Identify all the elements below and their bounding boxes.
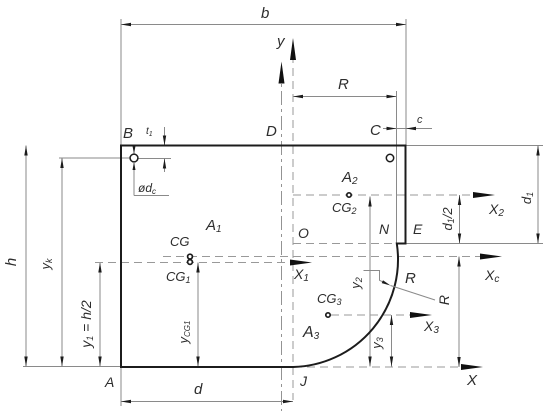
dimension h left — [25, 146, 27, 367]
wire extension left edge down for d — [120, 367, 122, 406]
svg-text:d: d — [194, 381, 203, 398]
svg-text:R: R — [338, 76, 349, 93]
axis X dashed line — [294, 366, 479, 368]
dimension c — [383, 128, 432, 130]
hole at B (o dc) — [130, 154, 138, 162]
shape outline (section profile) — [121, 146, 406, 368]
wire extension hole-B t1 level — [138, 158, 171, 160]
node CG1 — [188, 260, 193, 265]
wire extension line R/c at x=396.5 — [396, 91, 398, 244]
wire extension top edge right to d1 — [406, 145, 543, 147]
svg-text:A: A — [104, 374, 114, 390]
dimension y1=h/2 — [99, 263, 101, 367]
dimension R top — [293, 96, 397, 98]
node yc dash-dot vertical axis — [281, 66, 283, 411]
svg-text:h: h — [3, 258, 20, 266]
dimension y3 — [391, 315, 393, 367]
svg-text:c: c — [417, 114, 423, 126]
svg-text:N: N — [379, 221, 390, 237]
dimension t1 — [164, 127, 166, 146]
axis X3 dashed line — [331, 314, 428, 316]
dimension yk — [61, 158, 63, 367]
svg-text:CG: CG — [170, 234, 190, 249]
svg-text:y1 = h/2: y1 = h/2 — [78, 300, 95, 349]
svg-text:R: R — [436, 295, 452, 305]
svg-text:B: B — [123, 125, 133, 142]
svg-text:b: b — [261, 5, 269, 22]
dimension y2 — [369, 197, 371, 367]
leader R radius — [364, 271, 389, 285]
node CG (composite centroid) — [188, 254, 193, 259]
dimension yCG1 — [197, 263, 199, 367]
wire extension line b left — [120, 19, 122, 146]
node CG3 — [326, 313, 330, 317]
node O-N-E dashed line — [293, 243, 405, 245]
dimension d1/2 — [459, 195, 461, 244]
hole top right — [386, 154, 393, 161]
dimension b top — [121, 24, 406, 26]
svg-text:X: X — [466, 372, 478, 389]
leader o dc — [133, 147, 135, 154]
axis Xc dashed line — [163, 256, 498, 258]
svg-text:D: D — [266, 123, 277, 140]
svg-text:d1/2: d1/2 — [440, 207, 456, 231]
axis X2 dashed line — [293, 194, 491, 196]
svg-text:O: O — [298, 225, 309, 241]
svg-text:J: J — [299, 373, 308, 389]
node CG2 — [347, 193, 351, 197]
dimension d1 right — [537, 146, 539, 244]
svg-text:R: R — [405, 270, 416, 287]
wire extension bottom-left for h — [23, 366, 121, 368]
wire extension hole-B level for yk — [59, 157, 130, 159]
svg-text:E: E — [413, 221, 423, 237]
svg-text:C: C — [370, 122, 381, 139]
axis X1 dashed line — [95, 262, 308, 264]
dimension d bottom — [121, 401, 293, 403]
dimension R right vertical — [458, 257, 460, 368]
node y-axis dashed vertical — [292, 42, 294, 400]
wire extension line b/c right at x=406 — [405, 19, 407, 146]
wire extension E-level right to d1 — [406, 243, 544, 245]
